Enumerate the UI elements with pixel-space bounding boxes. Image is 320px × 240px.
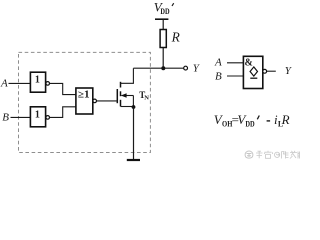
gate U4 output bubble [263, 69, 267, 73]
wire U1 output to OR input [50, 83, 76, 94]
wire resistor to node Y [162, 48, 164, 69]
NAND open-drain gate U4 box [243, 56, 262, 88]
transistor TN channel segment bottom [120, 100, 122, 107]
wire A input [9, 82, 31, 84]
svg-text:DD: DD [245, 119, 254, 128]
svg-text:A: A [214, 57, 222, 69]
gate U4 open-drain qualifier underline [250, 77, 257, 79]
svg-text:R: R [281, 112, 290, 127]
svg-text:R: R [171, 29, 180, 44]
svg-text:B: B [2, 112, 9, 124]
wire source to ground [133, 107, 135, 160]
wire TN source lead [121, 106, 134, 108]
wire B input [11, 116, 31, 118]
wire B to gate U4 [227, 75, 243, 77]
transistor TN channel segment top [120, 82, 122, 88]
gate U4 open-drain qualifier diamond [250, 67, 257, 76]
junction dot source/substrate [132, 105, 136, 109]
wire TN drain lead [121, 68, 134, 83]
wire A to gate U4 [227, 62, 243, 64]
inverter U1 box [30, 72, 45, 92]
transistor TN gate bar [116, 89, 118, 103]
watermark text [256, 151, 300, 159]
NOR gate U3 output bubble [93, 99, 97, 103]
svg-text:&: & [245, 58, 253, 69]
ground [127, 159, 140, 161]
inverter U1 output bubble [46, 82, 50, 86]
wire output node line [133, 67, 183, 69]
wire supply to resistor [162, 19, 164, 29]
svg-text:N: N [144, 95, 149, 102]
junction dot node Y [161, 66, 165, 70]
inverter U2 box [30, 107, 45, 127]
watermark logo [245, 151, 253, 158]
svg-text:A: A [0, 78, 8, 90]
dashed enclosure box [19, 52, 151, 152]
NOR gate U3 box [76, 88, 93, 114]
svg-text:1: 1 [35, 74, 40, 86]
transistor TN substrate arrow [122, 95, 134, 97]
wire TN substrate to source [132, 96, 134, 108]
wire U4 output to Y [267, 70, 276, 72]
svg-text:1: 1 [35, 108, 40, 120]
terminal Y open circle [184, 66, 188, 70]
transistor TN channel segment middle [120, 91, 122, 96]
svg-text:DD: DD [160, 7, 169, 16]
supply terminal bar [155, 18, 168, 20]
svg-text:B: B [215, 70, 222, 82]
wire U3 output to gate of TN [97, 100, 117, 102]
inverter U2 output bubble [46, 116, 50, 120]
wire U2 output to OR input [50, 107, 76, 118]
resistor R body [160, 30, 166, 48]
svg-text:≥1: ≥1 [78, 89, 90, 100]
